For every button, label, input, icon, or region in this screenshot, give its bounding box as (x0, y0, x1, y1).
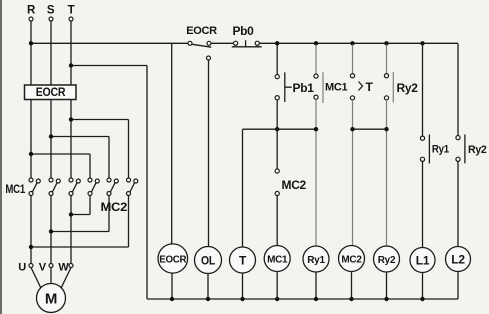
svg-text:Ry2: Ry2 (468, 144, 487, 156)
node bottom Ry1 (314, 297, 318, 301)
wire contact1 output to U (30, 196, 32, 264)
svg-text:MC2: MC2 (282, 178, 307, 192)
contact Ry2 lamp switch (456, 43, 487, 246)
svg-text:OL: OL (201, 254, 215, 268)
node bottom MC1 (275, 297, 279, 301)
node MC1 branch junction (314, 127, 318, 131)
wire S crossover to contact 5 (51, 137, 109, 179)
terminal R (27, 5, 36, 22)
coil EOCR (158, 244, 188, 299)
svg-text:V: V (39, 262, 47, 274)
svg-text:Pb0: Pb0 (232, 24, 254, 38)
svg-text:T: T (239, 254, 247, 268)
svg-text:EOCR: EOCR (36, 85, 66, 99)
wire U to motor (31, 268, 41, 288)
node rail MC1 branch (314, 41, 318, 45)
svg-text:S: S (47, 5, 55, 17)
coil MC1 (264, 246, 290, 300)
node join poles 3-4 (69, 212, 73, 216)
svg-text:MC1: MC1 (5, 184, 25, 196)
wire EOCR trip to OL lamp (208, 60, 210, 247)
coil T timer (230, 247, 256, 299)
svg-text:T: T (366, 80, 374, 94)
coil Ry1 (303, 246, 329, 299)
terminal T (68, 5, 75, 22)
node T crossover tap (69, 117, 73, 121)
wire contact3 output to W (70, 196, 72, 264)
svg-text:U: U (18, 262, 26, 274)
lamp L2 (446, 247, 471, 300)
wire contact6 output join (31, 196, 129, 248)
node rail T branch (350, 41, 354, 45)
node Pb1 branch junction (275, 127, 279, 131)
pushbutton Pb1 start (275, 45, 314, 170)
node rail Ry2 branch (384, 41, 388, 45)
node T branch junction (350, 127, 354, 131)
node bottom EOCR (170, 297, 174, 301)
svg-text:Ry1: Ry1 (307, 255, 325, 266)
contact Ry1 lamp switch (420, 45, 449, 248)
contactor MC2 pole 1 (88, 178, 99, 196)
wire W to motor (61, 268, 71, 288)
svg-text:R: R (27, 5, 36, 17)
node join poles 1-6 (29, 245, 33, 249)
node rail Ry1 lamp branch (420, 41, 424, 45)
node rail start on R (29, 41, 33, 45)
svg-text:M: M (45, 291, 57, 308)
contact Ry2 relay (384, 45, 418, 246)
wire contact4 output join (71, 196, 90, 215)
svg-text:Ry1: Ry1 (432, 144, 449, 156)
wire phase R vertical (30, 21, 32, 178)
lamp OL (195, 247, 222, 300)
contact T timer delay (350, 45, 373, 246)
contactor MC1 pole 1 (29, 178, 40, 196)
coil MC2 (339, 246, 365, 300)
svg-text:MC2: MC2 (341, 255, 362, 266)
terminal S (47, 5, 55, 22)
wire contact5 output join (51, 196, 109, 232)
contactor MC2 pole 2 (107, 178, 118, 196)
node bottom OL (206, 297, 210, 301)
contactor MC1 pole 2 (49, 178, 60, 196)
contactor MC2 pole 3 (127, 178, 138, 196)
wire R crossover to contact 4 (31, 154, 90, 178)
node bottom Ry2 (384, 297, 388, 301)
lamp L1 (410, 248, 435, 300)
svg-text:Ry2: Ry2 (378, 255, 396, 266)
node bottom MC2 (349, 297, 353, 301)
terminal W (58, 262, 73, 274)
relay EOCR overcurrent block (25, 85, 77, 100)
contact MC2 interlock (275, 169, 306, 246)
svg-text:MC1: MC1 (325, 82, 348, 94)
svg-text:MC1: MC1 (267, 255, 288, 266)
svg-text:L1: L1 (416, 254, 430, 268)
wire Pb1 MC1 junction bar to T coil (243, 129, 317, 247)
wire top control rail (31, 42, 458, 44)
node rail Pb1 branch (275, 41, 279, 45)
svg-text:T: T (68, 5, 75, 17)
terminal U (18, 262, 33, 274)
svg-text:L2: L2 (451, 253, 465, 267)
node bottom T (240, 297, 244, 301)
contactor MC1 pole 3 (69, 178, 80, 196)
wire phase S vertical (50, 21, 52, 178)
node Ry2 branch junction (384, 127, 388, 131)
wire V to motor (50, 268, 52, 284)
svg-text:EOCR: EOCR (159, 254, 187, 265)
svg-text:MC2: MC2 (101, 200, 128, 214)
wire contact2 output to V (50, 196, 52, 264)
contact EOCR changeover (186, 25, 217, 60)
contact MC1 holding (314, 45, 348, 246)
wire T Ry2 junction bar (353, 128, 387, 130)
terminal V (39, 262, 53, 274)
wire bottom rail (147, 298, 458, 300)
pushbutton Pb0 stop (232, 24, 262, 47)
wire T crossover to contact 6 (71, 120, 129, 179)
wire phase T vertical (70, 21, 72, 178)
svg-text:Pb1: Pb1 (293, 81, 315, 95)
node S crossover tap (49, 134, 53, 138)
node join poles 2-5 (49, 229, 53, 233)
node R crossover tap (29, 152, 33, 156)
svg-text:W: W (58, 262, 69, 274)
node bottom L1 (420, 297, 424, 301)
wire T to control circuit left drop (71, 66, 147, 300)
motor M (37, 284, 66, 313)
node T control tap (69, 63, 73, 67)
wire rail to EOCR coil (171, 43, 173, 245)
svg-text:Ry2: Ry2 (397, 81, 419, 95)
svg-text:EOCR: EOCR (186, 25, 217, 37)
coil Ry2 (374, 246, 400, 299)
